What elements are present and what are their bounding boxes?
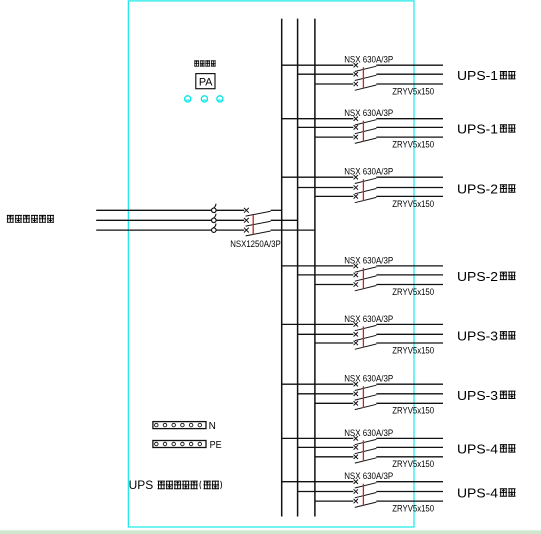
outgoing wire L1 bbox=[376, 383, 443, 385]
N terminal strip bbox=[153, 422, 206, 429]
breaker pole L1 bbox=[354, 436, 377, 445]
tap wire L3 bbox=[315, 83, 353, 85]
outgoing wire L3 bbox=[376, 136, 443, 138]
breaker pole L3 bbox=[354, 82, 377, 91]
outgoing wire L1 bbox=[376, 176, 443, 178]
outgoing wire L3 bbox=[376, 456, 443, 458]
PA meter name label (CJK) bbox=[194, 60, 216, 66]
tap wire L2 bbox=[298, 446, 354, 448]
bottom title-bar band bbox=[0, 530, 541, 534]
busbar L2 bbox=[297, 19, 299, 517]
svg-text:NSX 630A/3P: NSX 630A/3P bbox=[344, 54, 393, 65]
svg-text:ZRYV5x150: ZRYV5x150 bbox=[392, 458, 434, 469]
tap wire L3 bbox=[315, 136, 353, 138]
main breaker QF pole L3 bbox=[244, 228, 271, 236]
svg-text:UPS-3: UPS-3 bbox=[457, 328, 498, 343]
outgoing wire L1 bbox=[376, 437, 443, 439]
outgoing wire L1 bbox=[376, 323, 443, 325]
tap wire L2 bbox=[298, 274, 354, 276]
outgoing wire L3 bbox=[376, 500, 443, 502]
breaker pole L2 bbox=[354, 392, 377, 401]
svg-text:ZRYV5x150: ZRYV5x150 bbox=[392, 286, 434, 297]
main breaker tie bar bbox=[252, 215, 254, 235]
breaker tie bar bbox=[362, 326, 364, 347]
tap wire L1 bbox=[282, 323, 354, 325]
outgoing wire L2 bbox=[376, 393, 443, 395]
svg-text:UPS-2: UPS-2 bbox=[457, 182, 498, 197]
outgoing wire L2 bbox=[376, 187, 443, 189]
PE terminal strip bbox=[153, 441, 206, 448]
branch 2 UPS-1 zheng bbox=[282, 107, 516, 149]
svg-text:NSX 630A/3P: NSX 630A/3P bbox=[344, 166, 393, 177]
outgoing wire L2 bbox=[376, 446, 443, 448]
incoming wire L2 bbox=[96, 219, 244, 221]
svg-text:UPS-4: UPS-4 bbox=[457, 486, 498, 501]
branch 7 UPS-4 pang bbox=[282, 427, 516, 469]
outgoing wire L2 bbox=[376, 274, 443, 276]
drawout contact on incoming L2 bbox=[212, 214, 217, 223]
svg-text:ZRYV5x150: ZRYV5x150 bbox=[392, 503, 434, 514]
tap wire L1 bbox=[282, 481, 354, 483]
svg-text:UPS-1: UPS-1 bbox=[457, 121, 498, 136]
tap wire L2 bbox=[298, 126, 354, 128]
incoming feeder note 来自上端配电 bbox=[7, 215, 54, 223]
breaker pole L3 bbox=[354, 341, 377, 350]
outgoing wire L1 bbox=[376, 265, 443, 267]
tap wire L1 bbox=[282, 265, 354, 267]
load name CJK suffix bbox=[500, 184, 516, 192]
svg-text:ZRYV5x150: ZRYV5x150 bbox=[392, 405, 434, 416]
branch 6 UPS-3 zheng bbox=[282, 373, 516, 416]
tap wire L1 bbox=[282, 118, 354, 120]
CT lamp circle 1 bbox=[185, 96, 191, 102]
breaker tie bar bbox=[362, 121, 364, 142]
outgoing wire L2 bbox=[376, 333, 443, 335]
outgoing wire L3 bbox=[376, 83, 443, 85]
tap wire L3 bbox=[315, 456, 353, 458]
main breaker output jumper L3 bbox=[271, 229, 315, 231]
outgoing wire L1 bbox=[376, 118, 443, 120]
tap wire L1 bbox=[282, 383, 354, 385]
load name CJK suffix bbox=[500, 331, 516, 339]
breaker pole L2 bbox=[354, 332, 377, 341]
outgoing wire L1 bbox=[376, 64, 443, 66]
svg-text:UPS-2: UPS-2 bbox=[457, 269, 498, 284]
breaker pole L1 bbox=[354, 264, 377, 273]
breaker pole L2 bbox=[354, 273, 377, 282]
breaker pole L2 bbox=[354, 72, 377, 81]
tap wire L2 bbox=[298, 187, 354, 189]
load name CJK suffix bbox=[500, 71, 516, 79]
breaker pole L3 bbox=[354, 401, 377, 410]
svg-text:PA: PA bbox=[199, 77, 213, 89]
breaker pole L3 bbox=[354, 194, 377, 203]
breaker tie bar bbox=[362, 386, 364, 408]
load name CJK suffix bbox=[500, 124, 516, 132]
tap wire L2 bbox=[298, 393, 354, 395]
branch 8 UPS-4 zheng bbox=[282, 470, 516, 513]
branch 5 UPS-3 pang bbox=[282, 313, 516, 356]
drawout contact on incoming L3 bbox=[212, 224, 217, 233]
tap wire L3 bbox=[315, 284, 353, 286]
breaker tie bar bbox=[362, 484, 364, 506]
outgoing wire L3 bbox=[376, 402, 443, 404]
svg-text:NSX 630A/3P: NSX 630A/3P bbox=[344, 254, 393, 265]
tap wire L1 bbox=[282, 64, 354, 66]
svg-text:NSX 630A/3P: NSX 630A/3P bbox=[344, 107, 393, 118]
outgoing wire L3 bbox=[376, 284, 443, 286]
main breaker output jumper L2 bbox=[271, 219, 298, 221]
load name CJK suffix bbox=[500, 488, 516, 496]
CT lamp circle 3 bbox=[217, 96, 223, 102]
svg-text:UPS: UPS bbox=[129, 478, 154, 492]
breaker tie bar bbox=[362, 67, 364, 89]
outgoing wire L3 bbox=[376, 342, 443, 344]
svg-text:ZRYV5x150: ZRYV5x150 bbox=[392, 85, 434, 96]
svg-text:NSX1250A/3P: NSX1250A/3P bbox=[230, 238, 281, 249]
breaker pole L1 bbox=[354, 175, 377, 184]
outgoing wire L1 bbox=[376, 481, 443, 483]
svg-text:NSX 630A/3P: NSX 630A/3P bbox=[344, 373, 393, 384]
branch 1 UPS-1 pang bbox=[282, 54, 516, 97]
tap wire L3 bbox=[315, 500, 353, 502]
tap wire L2 bbox=[298, 333, 354, 335]
load name CJK suffix bbox=[500, 444, 516, 452]
svg-text:UPS-1: UPS-1 bbox=[457, 68, 498, 83]
tap wire L3 bbox=[315, 402, 353, 404]
drawout contact on incoming L1 bbox=[212, 204, 217, 213]
breaker pole L1 bbox=[354, 382, 377, 391]
cabinet title CJK 输入配电柜(厂房) bbox=[158, 481, 222, 490]
branch 4 UPS-2 zheng bbox=[282, 254, 516, 297]
breaker pole L1 bbox=[354, 322, 377, 331]
breaker pole L1 bbox=[354, 63, 377, 72]
svg-text:ZRYV5x150: ZRYV5x150 bbox=[392, 198, 434, 209]
main breaker QF pole L2 bbox=[244, 218, 271, 226]
breaker pole L2 bbox=[354, 125, 377, 133]
CT lamp circle 2 bbox=[201, 96, 207, 102]
svg-text:PE: PE bbox=[210, 440, 222, 451]
tap wire L2 bbox=[298, 73, 354, 75]
busbar L3 bbox=[314, 19, 316, 517]
cabinet enclosure outline bbox=[128, 1, 414, 527]
svg-text:ZRYV5x150: ZRYV5x150 bbox=[392, 344, 434, 355]
breaker pole L2 bbox=[354, 185, 377, 194]
incoming wire L1 bbox=[96, 209, 244, 211]
svg-text:UPS-3: UPS-3 bbox=[457, 388, 498, 403]
svg-text:N: N bbox=[209, 421, 216, 432]
incoming wire L3 bbox=[96, 229, 244, 231]
load name CJK suffix bbox=[500, 391, 516, 399]
tap wire L3 bbox=[315, 195, 353, 197]
tap wire L2 bbox=[298, 491, 354, 493]
main breaker output jumper L1 bbox=[271, 209, 282, 211]
svg-text:ZRYV5x150: ZRYV5x150 bbox=[392, 139, 434, 150]
tap wire L3 bbox=[315, 342, 353, 344]
svg-text:NSX 630A/3P: NSX 630A/3P bbox=[344, 313, 393, 324]
breaker pole L3 bbox=[354, 499, 377, 508]
load name CJK suffix bbox=[500, 272, 516, 280]
tap wire L1 bbox=[282, 176, 354, 178]
outgoing wire L2 bbox=[376, 73, 443, 75]
outgoing wire L3 bbox=[376, 195, 443, 197]
breaker pole L1 bbox=[354, 117, 377, 126]
busbar L1 bbox=[281, 19, 283, 517]
outgoing wire L2 bbox=[376, 126, 443, 128]
outgoing wire L2 bbox=[376, 491, 443, 493]
PA meter box bbox=[196, 74, 215, 89]
svg-text:UPS-4: UPS-4 bbox=[457, 441, 498, 456]
breaker pole L3 bbox=[354, 455, 377, 464]
breaker pole L2 bbox=[354, 489, 377, 498]
breaker pole L3 bbox=[354, 135, 377, 144]
tap wire L1 bbox=[282, 437, 354, 439]
breaker tie bar bbox=[362, 440, 364, 461]
svg-text:NSX 630A/3P: NSX 630A/3P bbox=[344, 427, 393, 438]
main breaker QF pole L1 bbox=[244, 208, 271, 216]
breaker pole L2 bbox=[354, 445, 377, 454]
breaker tie bar bbox=[362, 179, 364, 201]
breaker pole L1 bbox=[354, 480, 377, 489]
svg-text:NSX 630A/3P: NSX 630A/3P bbox=[344, 470, 393, 481]
breaker tie bar bbox=[362, 268, 364, 289]
branch 3 UPS-2 pang bbox=[282, 166, 516, 209]
breaker pole L3 bbox=[354, 282, 377, 291]
